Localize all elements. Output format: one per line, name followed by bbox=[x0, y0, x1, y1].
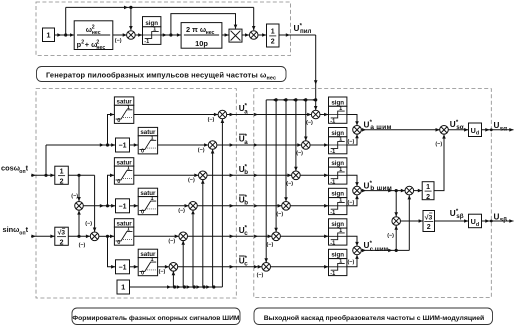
wire: Sc output rail row c bbox=[99, 235, 115, 237]
svg-text:sα: sα bbox=[456, 124, 464, 131]
wire: W1 to summer S1t bbox=[113, 34, 127, 36]
wire: Upil vertical feed down to output stage bbox=[315, 35, 317, 100]
wire: -1 to satur a-inv bbox=[130, 144, 139, 146]
wire: tap up to satur A input bbox=[108, 115, 115, 146]
block gain -1 b-inv bbox=[116, 199, 130, 213]
wire: sign out riser to multiplier bbox=[171, 14, 236, 35]
svg-text:0: 0 bbox=[141, 270, 144, 276]
wire: Ub_shim rail bbox=[361, 190, 405, 192]
saturation block SATa bbox=[114, 97, 133, 124]
svg-text:-1: -1 bbox=[144, 39, 149, 45]
wire: comparator A to sign block bbox=[310, 144, 328, 146]
svg-text:b: b bbox=[244, 200, 248, 207]
svg-text:satur: satur bbox=[140, 129, 156, 136]
block W2 integrator 2*pi*w/10p bbox=[181, 23, 222, 49]
svg-text:(−): (−) bbox=[85, 221, 92, 227]
node label U*cbar bbox=[239, 255, 248, 268]
svg-text:√3: √3 bbox=[425, 213, 433, 221]
block constant 1 (top) bbox=[43, 28, 55, 42]
svg-text:1: 1 bbox=[60, 168, 64, 175]
svg-text:sign: sign bbox=[145, 20, 158, 27]
wire: drop into summer S1t bbox=[130, 7, 132, 30]
wire: Ub drop to beta summer top bbox=[395, 191, 397, 217]
comparator summer a bbox=[311, 110, 320, 119]
svg-text:1: 1 bbox=[46, 30, 50, 39]
svg-text:0: 0 bbox=[141, 149, 144, 155]
summer row C bbox=[169, 263, 178, 272]
node label U*bbar bbox=[239, 194, 248, 207]
node label U*c bbox=[239, 224, 248, 237]
caption box: phase reference former bbox=[72, 308, 240, 325]
wire: Upil drop to comparator C bbox=[265, 100, 267, 263]
svg-text:1: 1 bbox=[127, 227, 130, 233]
summer Uashim (PWM phase a) bbox=[353, 126, 362, 135]
summer Ubshim (PWM phase b) bbox=[353, 186, 362, 195]
output label Us_beta bbox=[494, 212, 508, 223]
sign relay block SGN-c bbox=[329, 219, 347, 247]
svg-text:2: 2 bbox=[60, 239, 64, 246]
wire: sin input bbox=[31, 235, 55, 237]
wire: Upil distribution rail bbox=[266, 99, 316, 101]
output label Us_alpha bbox=[494, 121, 508, 132]
node label Ub_shim bbox=[364, 181, 393, 192]
block gain -1 a-inv bbox=[116, 138, 130, 152]
wire: drop to summer Sb top bbox=[78, 175, 80, 201]
wire: gain out to Upil node bbox=[279, 34, 316, 36]
comparator summer B bbox=[282, 202, 291, 211]
summer Ucshim (PWM phase c) bbox=[353, 246, 362, 255]
block Ud (beta inverter link) bbox=[469, 214, 482, 228]
svg-text:-1: -1 bbox=[330, 240, 335, 246]
wire: sign b out to PWM summer top bbox=[347, 175, 357, 186]
saturation block SATa-inv bbox=[138, 127, 157, 154]
multiplier M1 (product) bbox=[229, 29, 242, 42]
wire: sign c out to PWM summer top bbox=[347, 236, 357, 246]
wire: top rail bbox=[66, 6, 254, 8]
wire: Ud alpha output bbox=[482, 129, 514, 131]
wire: Ua_shim to alpha summer bbox=[361, 129, 439, 131]
sign relay block SGN-b bbox=[329, 158, 347, 186]
wire: riser to summer Sb bottom bbox=[78, 210, 80, 236]
svg-text:Формирователь фазных опорных: Формирователь фазных опорных сигналов ШИ… bbox=[72, 315, 240, 322]
wire: Uc_shim rail bbox=[361, 249, 409, 251]
node label U*a bbox=[239, 103, 248, 116]
block gain -1 c-inv bbox=[116, 260, 130, 274]
svg-text:2: 2 bbox=[81, 40, 84, 46]
wire: satur out to row summer (b) bbox=[134, 174, 199, 176]
svg-text:sβ: sβ bbox=[500, 217, 508, 224]
comparator summer c bbox=[272, 232, 281, 241]
summer row A bbox=[208, 141, 217, 150]
comparator summer C bbox=[262, 263, 271, 272]
wire: bias riser to row A summer bbox=[212, 149, 214, 287]
saturation block SATc-inv bbox=[138, 249, 157, 276]
svg-text:U: U bbox=[364, 241, 370, 250]
svg-text:1: 1 bbox=[121, 283, 125, 292]
saturation block SATb bbox=[114, 158, 133, 185]
wire: bias riser to row a summer bbox=[221, 119, 223, 287]
comparator summer A bbox=[302, 141, 311, 150]
gain block 1/2 (generator) bbox=[267, 24, 280, 47]
wire: bias rail bbox=[130, 286, 223, 288]
wire: Uc riser to b+c summer bottom bbox=[408, 195, 410, 250]
input label sin(w_op t) bbox=[3, 225, 29, 236]
block constant 1 (bias) bbox=[117, 280, 130, 294]
svg-text:(−): (−) bbox=[188, 178, 195, 184]
svg-text:1: 1 bbox=[127, 105, 130, 111]
node label Ua_shim bbox=[364, 120, 392, 131]
svg-text:0: 0 bbox=[117, 240, 120, 246]
svg-text:2: 2 bbox=[271, 39, 275, 46]
caption box: output stage of frequency converter bbox=[254, 308, 493, 325]
wire: sign out to integrator bbox=[161, 34, 181, 36]
wire: comparator c to sign block bbox=[280, 235, 328, 237]
svg-text:(−): (−) bbox=[348, 200, 355, 206]
svg-text:sign: sign bbox=[331, 99, 344, 106]
wire: bias riser to row c summer bbox=[182, 241, 184, 287]
wire: satur out to row summer (C) bbox=[158, 266, 170, 268]
wire: cos input bbox=[31, 174, 55, 176]
gain block sqrt3/2 (former) bbox=[55, 227, 69, 246]
svg-text:sign: sign bbox=[331, 252, 344, 259]
block W1 resonator w^2/(p^2+w^2) bbox=[74, 21, 113, 50]
svg-text:sα: sα bbox=[500, 125, 508, 132]
dashed enclosure: PWM reference former unit bbox=[36, 89, 236, 298]
svg-text:−1: −1 bbox=[119, 264, 127, 271]
wire: row C output to comparator bbox=[178, 266, 262, 268]
summer Sb (phase b ref) bbox=[75, 202, 84, 211]
wire: Upil drop to comparator c bbox=[275, 100, 277, 232]
svg-text:0: 0 bbox=[117, 179, 120, 185]
node label U*b bbox=[239, 163, 248, 176]
svg-text:U: U bbox=[494, 121, 500, 130]
wire: satur out to row summer (A) bbox=[158, 144, 209, 146]
sign relay block SGN-a bbox=[329, 97, 347, 125]
svg-text:1: 1 bbox=[151, 135, 154, 141]
summer row c bbox=[179, 232, 188, 241]
svg-text:-1: -1 bbox=[330, 149, 335, 155]
svg-text:satur: satur bbox=[140, 251, 156, 258]
wire: b+c summer to 1/2 gain bbox=[414, 190, 423, 192]
svg-text:2: 2 bbox=[427, 224, 431, 231]
summer row a bbox=[218, 110, 227, 119]
wire: sign B out to PWM summer bottom bbox=[347, 195, 357, 206]
wire: Uc riser to beta summer bottom bbox=[395, 226, 397, 251]
svg-text:(−): (−) bbox=[387, 233, 394, 239]
node label U*abar bbox=[239, 133, 248, 146]
node label Us_alpha* bbox=[450, 120, 464, 131]
gain block 1/2 (former) bbox=[55, 166, 69, 185]
svg-text:sign: sign bbox=[331, 191, 344, 198]
svg-text:−1: −1 bbox=[119, 203, 127, 210]
svg-text:sign: sign bbox=[331, 221, 344, 228]
wire: bias riser to row B summer bbox=[192, 210, 194, 287]
summer b+c bbox=[405, 186, 414, 195]
svg-text:-1: -1 bbox=[330, 179, 335, 185]
svg-text:(−): (−) bbox=[79, 242, 86, 248]
wire: -1 to satur c-inv bbox=[130, 266, 139, 268]
svg-text:U: U bbox=[294, 24, 300, 33]
wire: Upil drop to comparator a bbox=[315, 100, 317, 110]
svg-text:(−): (−) bbox=[257, 272, 264, 278]
wire: tap up to satur b input bbox=[108, 175, 115, 206]
svg-text:(−): (−) bbox=[159, 269, 166, 275]
wire: Upil drop to comparator A bbox=[305, 100, 307, 141]
svg-text:нес: нес bbox=[92, 30, 101, 36]
svg-text:(−): (−) bbox=[208, 117, 215, 123]
wire: Ud beta output bbox=[482, 220, 514, 222]
summer row B bbox=[189, 202, 198, 211]
wire: tap down to -1 row C bbox=[108, 236, 116, 266]
sign relay block SGN-B bbox=[329, 188, 347, 216]
wire: multiplier to summer S2t bbox=[242, 34, 249, 36]
svg-text:1: 1 bbox=[127, 166, 130, 172]
node label Uc_shim bbox=[364, 241, 389, 253]
summer S2t bbox=[249, 31, 258, 40]
wire: row A output to comparator bbox=[217, 144, 302, 146]
svg-text:(−): (−) bbox=[276, 211, 283, 217]
svg-text:satur: satur bbox=[117, 220, 133, 227]
wire: beta summer to sqrt3/2 bbox=[401, 220, 424, 222]
svg-text:a: a bbox=[244, 139, 248, 146]
svg-text:пил: пил bbox=[300, 28, 312, 35]
wire: comparator B to sign block bbox=[290, 205, 328, 207]
svg-text:-1: -1 bbox=[330, 119, 335, 125]
svg-text:c: c bbox=[244, 230, 248, 237]
svg-text:satur: satur bbox=[117, 99, 133, 106]
svg-text:U: U bbox=[364, 121, 370, 130]
saturation block SATb-inv bbox=[138, 188, 157, 215]
wire: Sb output rail row B bbox=[83, 205, 115, 207]
svg-text:нес: нес bbox=[96, 45, 105, 51]
wire: row a output to comparator bbox=[227, 114, 312, 116]
node label Upil* bbox=[294, 24, 312, 35]
wire: comparator C to sign block bbox=[271, 266, 329, 268]
comparator summer b bbox=[292, 171, 301, 180]
svg-text:(−): (−) bbox=[296, 151, 303, 157]
wire: satur out to row summer (a) bbox=[134, 114, 218, 116]
gain block sqrt3/2 (beta) bbox=[423, 211, 435, 232]
svg-text:2: 2 bbox=[60, 178, 64, 185]
wire: integrator to multiplier bbox=[222, 34, 229, 36]
wire: sign A out to PWM summer bottom bbox=[347, 134, 357, 145]
svg-text:1: 1 bbox=[339, 228, 342, 234]
svg-text:1: 1 bbox=[426, 184, 430, 191]
wire: Upil drop to comparator B bbox=[285, 100, 287, 202]
dashed enclosure: sawtooth generator unit bbox=[36, 2, 291, 56]
wire: 1/2 output rail bbox=[68, 174, 94, 176]
svg-text:1: 1 bbox=[151, 196, 154, 202]
wire: alpha summer to Ud block bbox=[448, 129, 468, 131]
summer row b bbox=[199, 171, 208, 180]
svg-text:d: d bbox=[476, 131, 479, 137]
node label Us_beta* bbox=[450, 209, 464, 220]
svg-text:√3: √3 bbox=[58, 229, 66, 237]
svg-text:satur: satur bbox=[140, 190, 156, 197]
svg-text:(−): (−) bbox=[306, 120, 313, 126]
sign relay block SGN0 (generator) bbox=[143, 17, 161, 45]
svg-text:(−): (−) bbox=[71, 194, 78, 200]
svg-text:с шим: с шим bbox=[370, 246, 389, 253]
svg-text:10p: 10p bbox=[195, 39, 208, 48]
svg-text:нес: нес bbox=[206, 30, 215, 36]
svg-text:(−): (−) bbox=[168, 239, 175, 245]
wire: drop to summer Sc top bbox=[94, 175, 96, 231]
svg-text:−1: −1 bbox=[119, 143, 127, 150]
wire: sqrt3/2 out to summer Sc bbox=[68, 235, 90, 237]
svg-text:(−): (−) bbox=[115, 38, 122, 44]
svg-text:1: 1 bbox=[153, 27, 156, 33]
svg-text:a: a bbox=[244, 108, 248, 115]
wire: bias riser to row b summer bbox=[202, 180, 204, 287]
svg-text:1: 1 bbox=[339, 167, 342, 173]
svg-text:-1: -1 bbox=[330, 271, 335, 277]
svg-text:sinω: sinω bbox=[3, 225, 20, 234]
svg-text:(−): (−) bbox=[348, 260, 355, 266]
svg-text:cosω: cosω bbox=[1, 164, 20, 173]
svg-text:1: 1 bbox=[339, 106, 342, 112]
svg-text:(−): (−) bbox=[435, 142, 442, 148]
wire: top rail drop into summer S2t bbox=[253, 7, 255, 30]
wire: row b output to comparator bbox=[207, 174, 292, 176]
svg-text:(−): (−) bbox=[267, 242, 274, 248]
wire: 1/2 out riser to alpha summer bottom bbox=[434, 134, 444, 190]
gain block 1/2 (alpha) bbox=[422, 182, 434, 201]
svg-text:satur: satur bbox=[117, 159, 133, 166]
wire: S2t to gain 1/2 bbox=[258, 34, 267, 36]
wire: sign C out to PWM summer bottom bbox=[347, 255, 357, 267]
wire: comparator b to sign block bbox=[300, 174, 328, 176]
svg-text:2 π ω: 2 π ω bbox=[186, 25, 206, 34]
svg-text:sβ: sβ bbox=[456, 213, 464, 220]
svg-text:U: U bbox=[450, 120, 456, 129]
wire: row c output to comparator bbox=[188, 235, 272, 237]
wire: satur out to row summer (c) bbox=[134, 235, 179, 237]
saturation block SATc bbox=[114, 219, 133, 246]
wire: sqrt3/2 to Ud beta bbox=[435, 220, 469, 222]
svg-text:(−): (−) bbox=[348, 139, 355, 145]
svg-text:1: 1 bbox=[151, 257, 154, 263]
svg-text:(−): (−) bbox=[198, 147, 205, 153]
svg-text:sign: sign bbox=[331, 130, 344, 137]
wire: Upil drop to comparator b bbox=[295, 100, 297, 171]
wire: -1 to satur b-inv bbox=[130, 205, 139, 207]
svg-text:c: c bbox=[244, 261, 248, 268]
svg-text:1: 1 bbox=[339, 258, 342, 264]
block Ud (alpha inverter link) bbox=[469, 123, 482, 137]
wire: cos riser to row-A rail bbox=[45, 145, 47, 175]
wire: satur out to row summer (B) bbox=[158, 205, 189, 207]
summer Sc (phase c ref) bbox=[90, 232, 99, 241]
caption box: sawtooth pulse generator bbox=[37, 67, 287, 82]
wire: sign a out to PWM summer top bbox=[347, 115, 357, 126]
sign relay block SGN-A bbox=[329, 128, 347, 156]
wire: feedback riser to top rail bbox=[65, 7, 67, 35]
svg-text:U: U bbox=[494, 212, 500, 221]
svg-text:sign: sign bbox=[331, 160, 344, 167]
svg-text:-1: -1 bbox=[330, 210, 335, 216]
wire: bias riser to row C summer bbox=[172, 271, 174, 287]
wire: const 1 output bbox=[55, 34, 75, 36]
wire: row B output to comparator bbox=[197, 205, 281, 207]
wire: row-A rail (cos direct) bbox=[46, 144, 116, 146]
svg-text:(−): (−) bbox=[286, 181, 293, 187]
wire: S1t to sign relay bbox=[135, 34, 142, 36]
svg-text:U: U bbox=[450, 209, 456, 218]
svg-text:1: 1 bbox=[271, 29, 275, 36]
wire: comparator a to sign block bbox=[320, 114, 329, 116]
summer alpha bbox=[440, 126, 449, 135]
svg-text:d: d bbox=[476, 222, 479, 228]
sign relay block SGN-C bbox=[329, 249, 347, 276]
svg-text:b: b bbox=[244, 169, 248, 176]
summer S1t bbox=[127, 31, 136, 40]
svg-text:U: U bbox=[364, 181, 370, 190]
svg-text:Выходной каскад преобразовател: Выходной каскад преобразователя частоты … bbox=[264, 314, 485, 322]
dashed enclosure: PWM output stage unit bbox=[254, 89, 491, 298]
svg-text:1: 1 bbox=[339, 137, 342, 143]
input label cos(w_op t) bbox=[1, 164, 29, 175]
summer beta (b-c) bbox=[392, 217, 401, 226]
svg-text:1: 1 bbox=[339, 197, 342, 203]
svg-text:(−): (−) bbox=[178, 208, 185, 214]
svg-text:0: 0 bbox=[141, 209, 144, 215]
svg-text:2: 2 bbox=[426, 194, 430, 201]
svg-text:0: 0 bbox=[117, 118, 120, 124]
